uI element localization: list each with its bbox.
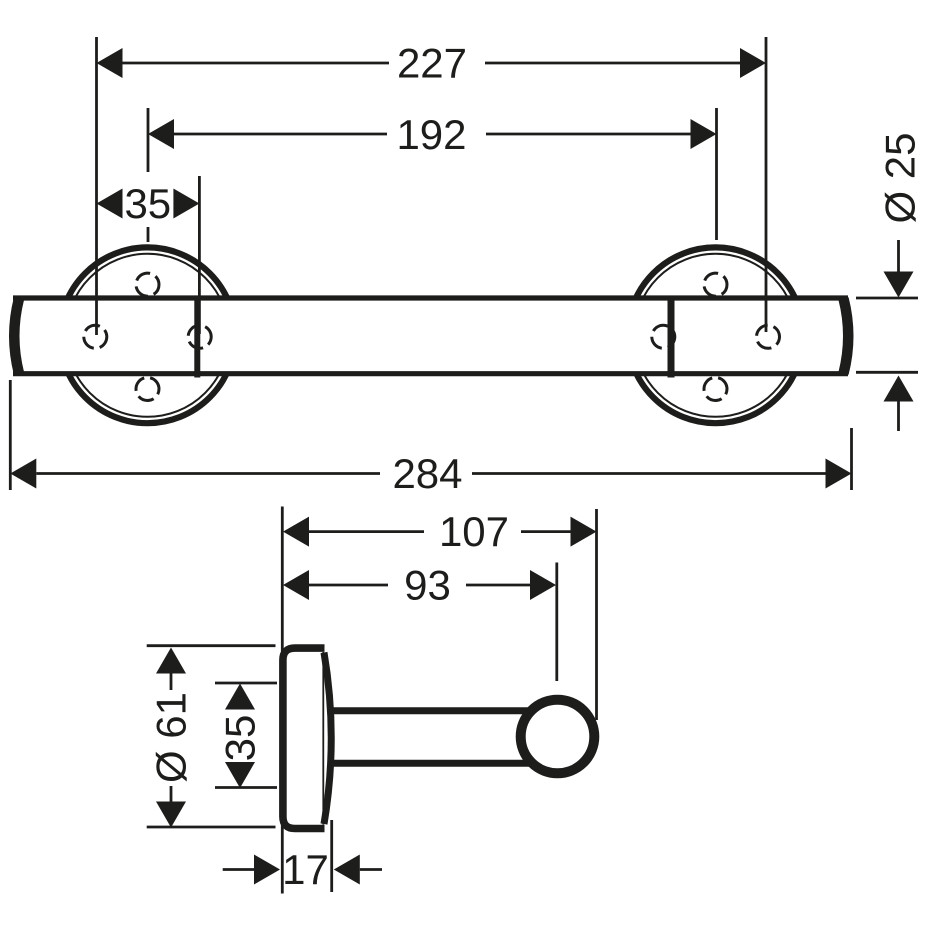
svg-text:Ø 25: Ø 25 [877,132,924,223]
svg-text:192: 192 [396,111,466,158]
svg-text:93: 93 [404,562,451,609]
svg-text:284: 284 [392,450,462,497]
svg-text:35: 35 [124,180,171,227]
svg-text:17: 17 [282,846,329,893]
svg-text:Ø 61: Ø 61 [147,692,194,783]
svg-text:227: 227 [397,40,467,87]
svg-text:35: 35 [217,715,264,762]
svg-text:107: 107 [439,508,509,555]
